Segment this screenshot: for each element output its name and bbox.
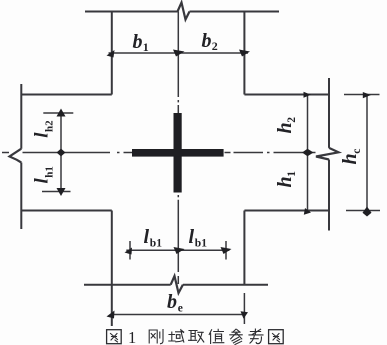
arrow at bottom of h1 dimension xyxy=(304,208,311,215)
break symbol on bottom cut line xyxy=(171,276,183,293)
caption char 取 xyxy=(189,331,204,343)
column left edge upper xyxy=(111,12,113,95)
top cut line of column (left segment) xyxy=(85,11,178,13)
label h1 (rotated) xyxy=(274,171,298,188)
label b2 xyxy=(202,30,218,53)
svg-text:1: 1 xyxy=(143,40,149,54)
arrow at middle of l_h2/l_h1 dimension xyxy=(57,149,66,157)
arrow at left end of b_e dimension xyxy=(107,311,115,319)
horizontal centerline (right of cross) xyxy=(225,152,316,154)
svg-text:c: c xyxy=(351,149,363,154)
beam right end cut line xyxy=(328,78,330,231)
arrow at middle of h2/h1 dimension xyxy=(302,149,314,156)
label b_e xyxy=(167,291,183,315)
caption char 图 (second) xyxy=(269,330,284,344)
svg-text:b: b xyxy=(167,291,177,313)
arrow at left end of first l_b1 dimension xyxy=(125,248,133,255)
extension line right of b_e xyxy=(243,293,245,324)
svg-text:l: l xyxy=(144,226,150,248)
svg-text:h: h xyxy=(274,176,296,187)
arrow at top of h_c dimension xyxy=(363,92,371,98)
caption digit 1 xyxy=(128,328,136,345)
arrow at middle of l_b1 dimensions xyxy=(174,247,185,254)
column right edge upper xyxy=(243,12,245,95)
label l_b1 (right) xyxy=(189,226,208,250)
extension line right of l_b1 xyxy=(225,241,227,260)
arrow at right end of b_e dimension xyxy=(241,311,249,319)
bottom cut line of column (right segment) xyxy=(183,284,268,286)
beam top edge right (extends to beam end cut) xyxy=(244,94,329,96)
caption char 刚 xyxy=(149,330,163,344)
rigid-zone cross vertical bar xyxy=(174,113,182,193)
svg-text:b1: b1 xyxy=(150,238,162,250)
dimension line h_c xyxy=(366,95,368,211)
arrow at middle of b1/b2 dimension xyxy=(173,50,185,57)
arrow at right end of second l_b1 dimension xyxy=(221,247,232,254)
rigid-zone cross horizontal bar xyxy=(132,149,224,157)
arrow at right end of b2 dimension xyxy=(239,50,250,57)
label b1 xyxy=(133,31,149,54)
arrow at left end of b1 dimension xyxy=(107,50,115,58)
dimension line l_h2 / l_h1 xyxy=(60,113,62,192)
arrow at top of l_h2 dimension xyxy=(57,109,66,117)
bottom cut line of column (left segment) xyxy=(84,284,171,286)
caption char 域 xyxy=(169,330,184,343)
svg-text:l: l xyxy=(189,226,195,248)
extension line left of l_b1 xyxy=(129,241,131,260)
label l_h1 (rotated) xyxy=(31,166,55,183)
label h_c (rotated) xyxy=(339,149,363,165)
svg-text:h2: h2 xyxy=(43,120,55,132)
arrow at bottom of h_c dimension xyxy=(363,207,372,217)
beam bottom edge right xyxy=(244,210,329,212)
arrow at top of h2 dimension xyxy=(304,92,312,98)
extension line top of h_c xyxy=(344,94,380,96)
break symbol on beam right end xyxy=(316,148,339,160)
vertical centerline extension up to top cut xyxy=(177,12,179,54)
caption char 考 xyxy=(249,329,263,344)
vertical centerline (above cross) xyxy=(177,53,179,113)
caption char 值 xyxy=(209,329,224,343)
svg-text:b1: b1 xyxy=(195,238,207,250)
svg-text:b: b xyxy=(133,31,143,53)
tick line at bottom of l_h1 xyxy=(42,191,71,193)
beam left end cut line xyxy=(20,84,22,229)
dimension line h2/h1 xyxy=(307,95,309,211)
top cut line of column (right segment) xyxy=(190,11,280,13)
svg-text:1: 1 xyxy=(128,328,136,345)
horizontal centerline short dash at far left xyxy=(2,152,9,154)
svg-text:h1: h1 xyxy=(43,166,55,178)
svg-text:1: 1 xyxy=(286,171,298,177)
arrow at bottom of l_h1 dimension xyxy=(57,188,66,196)
caption: 图 1 刚域取值参考图 (drawn strokes) xyxy=(107,328,284,345)
dimension line l_b1 l_b1 xyxy=(126,249,229,251)
dimension line b_e xyxy=(112,314,245,316)
column left edge lower (continues as extension line of dimension b_e) xyxy=(111,211,113,327)
label l_b1 (left) xyxy=(144,226,163,250)
svg-text:2: 2 xyxy=(212,39,218,53)
svg-text:2: 2 xyxy=(286,117,298,123)
break symbol on top cut line xyxy=(178,3,190,20)
break symbol on beam left end xyxy=(10,149,22,163)
caption char 图 xyxy=(107,330,122,344)
label h2 (rotated) xyxy=(274,117,298,134)
svg-text:h: h xyxy=(339,153,361,164)
beam bottom edge left xyxy=(21,210,112,212)
label l_h2 (rotated) xyxy=(31,120,55,138)
svg-text:e: e xyxy=(178,303,183,315)
extension line bottom of h_c xyxy=(346,210,380,212)
vertical centerline (below cross) xyxy=(177,195,179,284)
horizontal centerline (left of cross) xyxy=(23,152,133,154)
svg-text:b: b xyxy=(202,30,212,52)
svg-text:h: h xyxy=(274,122,296,133)
dimension line b1/b2 xyxy=(109,52,249,54)
tick line at top of l_h2 xyxy=(43,112,73,114)
column right edge lower xyxy=(243,211,245,285)
caption char 参 xyxy=(230,329,242,344)
beam top edge left xyxy=(21,94,112,96)
